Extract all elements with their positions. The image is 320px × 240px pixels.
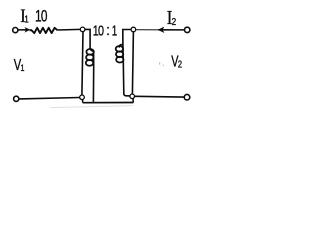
- label I1: [20, 5, 25, 27]
- L1 ring 1: [86, 49, 93, 55]
- bottom wire right node to terminal: [135, 95, 184, 98]
- jog up to bottom-right node: [132, 99, 134, 103]
- current arrow I1 head: [25, 27, 31, 33]
- wire top-left terminal to arrow: [19, 29, 28, 31]
- svg-text:10: 10: [93, 22, 104, 39]
- L2 ring 1: [116, 46, 123, 52]
- L1 ring 3: [86, 60, 93, 66]
- terminal bottom-right: [184, 94, 190, 100]
- top-left node: [80, 27, 85, 32]
- label V1: [14, 55, 22, 74]
- top-right node: [131, 27, 136, 32]
- primary coil L1 (10 side): top lead: [85, 29, 94, 51]
- bottom-left node stub: [82, 99, 84, 102]
- left rail of transformer: [82, 32, 83, 96]
- svg-text:1: 1: [21, 62, 25, 73]
- L2 ring 3: [116, 57, 123, 63]
- svg-text:1: 1: [24, 14, 28, 25]
- terminal top-right: [185, 27, 190, 32]
- bottom wire left terminal to node: [20, 98, 80, 99]
- scan smudge bottom: [50, 106, 133, 108]
- svg-text:2: 2: [178, 58, 182, 69]
- label 10:1 (turns ratio): [93, 22, 104, 39]
- right rail of transformer: [132, 32, 133, 95]
- L1 ring 2: [86, 55, 93, 61]
- resistor R 10 zigzag: [30, 28, 58, 33]
- wire resistor to left top node: [57, 28, 80, 31]
- wire arrow to top-right terminal: [159, 29, 185, 31]
- label 10 (resistor value): [35, 8, 47, 26]
- wire top-right node to arrow (faint in scan): [136, 29, 159, 31]
- label V2: [171, 52, 179, 70]
- L2 ring 2: [116, 51, 123, 57]
- L1 spine and bottom lead: [92, 51, 94, 102]
- terminal top-left: [13, 28, 18, 33]
- lower rail between bottom nodes: [83, 102, 134, 104]
- bottom-left node: [80, 95, 85, 100]
- svg-text::: :: [106, 22, 110, 38]
- current arrow I2 head: [158, 27, 165, 33]
- secondary coil L2 (1 side): lead, spine and bottom bend: [123, 30, 131, 96]
- noise specks near V2: [158, 63, 161, 65]
- L2 top hook: [119, 45, 123, 47]
- terminal bottom-left: [14, 96, 19, 101]
- bottom-right node: [130, 94, 135, 99]
- svg-text:1: 1: [112, 23, 118, 40]
- label I2: [167, 7, 173, 30]
- svg-text:10: 10: [35, 8, 47, 26]
- svg-text:2: 2: [172, 15, 177, 27]
